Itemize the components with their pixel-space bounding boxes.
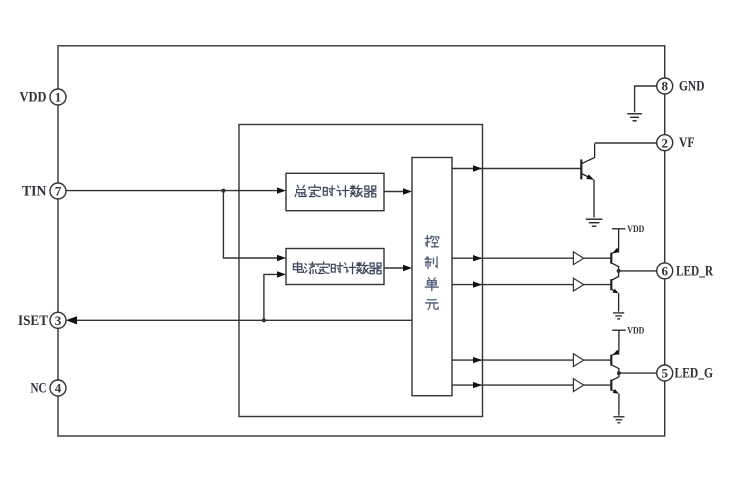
pin 2 VF <box>657 135 673 151</box>
arrowhead into total-timer-counter <box>277 187 286 193</box>
svg-text:VF: VF <box>679 135 695 151</box>
arrowhead output 5 at inner boundary <box>473 382 482 388</box>
svg-text:6: 6 <box>661 264 668 279</box>
pin 8 GND <box>657 78 673 94</box>
svg-text:1: 1 <box>55 90 62 105</box>
arrowhead output 2 at inner boundary <box>473 255 482 261</box>
wire LED_G node to pin5 <box>619 372 657 374</box>
wire B4 to Q5 base <box>584 384 612 386</box>
svg-text:GND: GND <box>679 79 705 95</box>
value label 控制单元 (vertical) <box>425 235 439 309</box>
wire control-unit output 4 to buffer B3 <box>452 359 573 361</box>
Q5 emitter arrowhead <box>613 389 619 394</box>
block current-timer-counter <box>286 249 384 285</box>
arrowhead output 1 at inner boundary <box>473 165 482 171</box>
transistor Q3 LED_R low-side NPN <box>611 271 618 312</box>
svg-text:8: 8 <box>661 79 668 94</box>
transistor Q1 VF driver NPN <box>581 144 594 218</box>
inner function-block boundary rect <box>239 125 483 417</box>
wire total-timer-counter to control-unit <box>384 191 404 193</box>
wire Q1 collector to VF pin2 <box>595 142 658 144</box>
pin 4 NC <box>50 380 66 396</box>
arrowhead output 4 at inner boundary <box>473 357 482 363</box>
svg-text:VDD: VDD <box>627 223 644 234</box>
wire LED_R node to pin6 <box>619 270 658 272</box>
arrowhead into control-unit from current-timer <box>403 265 412 271</box>
svg-text:LED_G: LED_G <box>675 366 714 382</box>
pin 5 LED_G <box>657 365 673 381</box>
value label 电流定时计数器 <box>293 262 381 274</box>
pin 6 LED_R <box>657 263 673 279</box>
wire control-unit output 1 to Q1 base <box>452 168 581 170</box>
ground below Q3 <box>613 313 624 319</box>
pin 3 ISET <box>50 312 66 328</box>
arrowhead into control-unit from total-timer <box>403 188 412 194</box>
VDD supply tick for LED_G driver <box>612 330 626 352</box>
buffer B2 <box>573 278 583 291</box>
wire ISET branch up to current-timer-counter <box>264 274 278 320</box>
wire B2 to Q3 base <box>584 284 612 286</box>
pin 1 VDD <box>50 89 66 105</box>
svg-text:VDD: VDD <box>627 325 644 336</box>
wire B1 to Q2 base <box>584 257 612 259</box>
wire ISET from control-unit to pin3 <box>76 319 412 321</box>
svg-text:ISET: ISET <box>18 313 48 329</box>
transistor Q4 LED_G high-side PNP <box>611 352 619 373</box>
Q2 emitter arrowhead (PNP, points to base) <box>612 248 619 253</box>
svg-text:VDD: VDD <box>20 90 47 106</box>
buffer B4 <box>573 379 583 392</box>
svg-text:7: 7 <box>55 184 62 199</box>
Q3 emitter arrowhead <box>613 289 619 294</box>
wire TIN branch down to current-timer-counter <box>223 191 278 258</box>
arrowhead into current-timer-counter lower input <box>277 271 286 277</box>
wire TIN pin7 to total-timer-counter <box>66 190 279 192</box>
arrowhead output 3 at inner boundary <box>473 281 482 287</box>
Q1 emitter arrowhead <box>586 174 594 180</box>
buffer B3 <box>573 354 583 367</box>
arrowhead into ISET pin3 <box>66 316 77 324</box>
svg-text:3: 3 <box>55 313 62 328</box>
arrowhead into current-timer-counter upper input <box>277 255 286 261</box>
VDD supply tick for LED_R driver <box>612 229 626 250</box>
IC boundary outer rect <box>58 46 665 436</box>
wire B3 to Q4 base <box>584 359 612 361</box>
node LED_R output junction <box>617 269 621 273</box>
svg-text:4: 4 <box>55 381 62 396</box>
ground below Q5 <box>613 417 624 423</box>
svg-text:5: 5 <box>661 366 668 381</box>
node junction on TIN wire <box>221 189 225 193</box>
transistor Q5 LED_G low-side NPN <box>611 373 619 415</box>
svg-text:2: 2 <box>661 135 668 150</box>
transistor Q2 LED_R high-side PNP <box>611 250 618 271</box>
wire control-unit output 2 to buffer B1 <box>452 257 573 259</box>
Q4 emitter arrowhead (PNP) <box>613 350 620 355</box>
ground below Q1 <box>586 219 603 226</box>
GND pin ground symbol <box>635 86 658 112</box>
value label 总定时计数器 <box>295 185 376 197</box>
svg-text:NC: NC <box>31 381 47 397</box>
wire control-unit output 5 to buffer B4 <box>452 384 573 386</box>
svg-text:LED_R: LED_R <box>676 263 713 279</box>
node LED_G output junction <box>617 371 621 375</box>
wire current-timer-counter to control-unit <box>384 267 404 269</box>
pin 7 TIN <box>50 183 66 199</box>
node junction on ISET wire <box>262 318 266 322</box>
wire control-unit output 3 to buffer B2 <box>452 284 573 286</box>
buffer B1 <box>573 252 583 265</box>
block control-unit U1 <box>412 158 452 396</box>
svg-text:TIN: TIN <box>22 184 47 200</box>
block total-timer-counter <box>286 173 384 210</box>
